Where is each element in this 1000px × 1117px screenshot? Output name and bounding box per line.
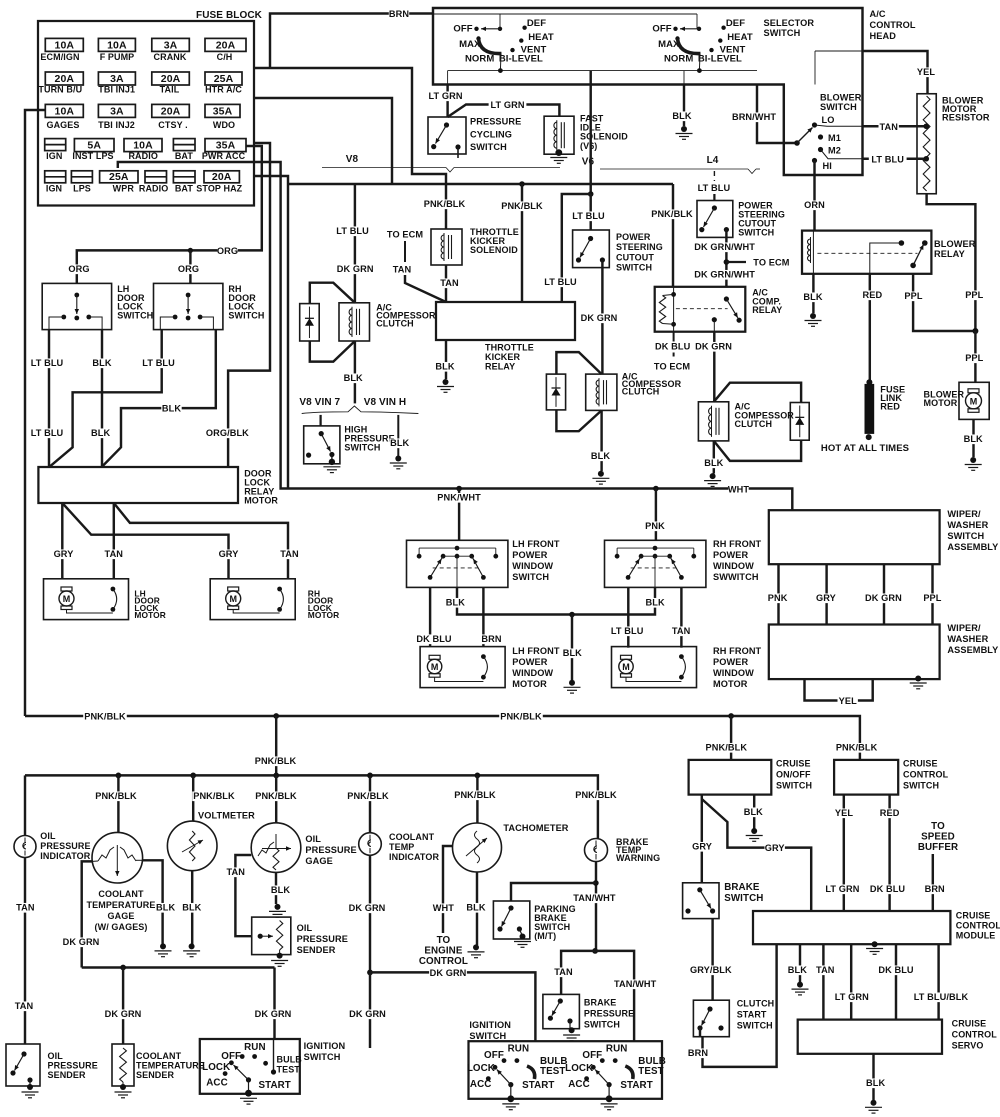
svg-text:CONTROL: CONTROL	[870, 20, 916, 30]
node tachometer feed	[475, 773, 481, 779]
svg-text:3A: 3A	[164, 39, 178, 51]
svg-text:BLK: BLK	[156, 903, 175, 913]
wire DK GRN to coolant sender 2	[369, 972, 371, 1048]
svg-text:CONTROL: CONTROL	[419, 956, 468, 967]
svg-text:ON/OFF: ON/OFF	[776, 770, 811, 780]
svg-text:LT BLU: LT BLU	[544, 277, 577, 287]
svg-text:IGNITION: IGNITION	[304, 1041, 346, 1051]
wire PNK/BLK left trunk from GAGES fuse down to lower trunk	[25, 110, 45, 716]
LH front power window motor	[420, 647, 505, 688]
wire GRY/BLK from brake switch	[711, 919, 713, 1001]
svg-text:GRY: GRY	[816, 593, 836, 603]
wire TAN to RH door lock motor	[114, 503, 288, 579]
fuse spacer BAT row5	[173, 171, 195, 183]
svg-text:BLK: BLK	[866, 1078, 885, 1088]
wire PNK to RH window switch	[655, 489, 657, 541]
svg-text:LT GRN: LT GRN	[490, 100, 524, 110]
throttle kicker solenoid box	[431, 229, 462, 265]
LH door lock motor	[44, 579, 129, 620]
svg-text:PPL: PPL	[965, 290, 983, 300]
svg-text:TO ECM: TO ECM	[654, 362, 690, 372]
fuse spacer LPS row5	[71, 171, 92, 183]
wire STOP HAZ feed / A/C section border	[254, 176, 288, 489]
wire BLK from coolant gage	[142, 860, 162, 944]
node DK GRN to coolant sender	[120, 965, 126, 971]
svg-text:LOCK: LOCK	[467, 1063, 495, 1074]
svg-text:DEF: DEF	[527, 18, 546, 29]
svg-text:LO: LO	[822, 115, 835, 125]
wire PPL from blower relay contact	[913, 274, 975, 331]
wire BLK from clutch V8	[354, 341, 356, 403]
tachometer circle	[453, 823, 502, 872]
svg-text:35A: 35A	[213, 105, 233, 117]
svg-text:WDO: WDO	[213, 120, 235, 130]
svg-text:RADIO: RADIO	[128, 151, 158, 161]
svg-text:PPL: PPL	[904, 291, 922, 301]
svg-text:TAN: TAN	[554, 967, 573, 977]
svg-text:PNK/BLK: PNK/BLK	[255, 791, 297, 801]
svg-text:SWITCH: SWITCH	[776, 781, 812, 791]
fuse CRANK 3A	[152, 38, 190, 51]
svg-text:BLK: BLK	[435, 362, 454, 372]
fuse STOP HAZ 20A	[204, 171, 239, 183]
oil pressure gage circle	[251, 823, 301, 873]
svg-text:M1: M1	[828, 133, 841, 143]
wire LT BLU branch to throttle kicker relay	[562, 194, 591, 302]
svg-text:POWER: POWER	[616, 232, 651, 242]
blower switch common node	[794, 140, 800, 146]
svg-text:BRN: BRN	[389, 9, 409, 19]
svg-text:LOCK: LOCK	[202, 1062, 230, 1073]
svg-text:BLK: BLK	[162, 404, 181, 414]
svg-text:OIL: OIL	[305, 834, 321, 844]
svg-text:M: M	[431, 662, 439, 672]
label LT GRN	[427, 91, 465, 101]
diode L4	[790, 403, 809, 441]
wire PNK/BLK to cruise on/off switch	[730, 716, 732, 760]
fuse INST LPS 5A	[74, 139, 114, 152]
RH front power window switch	[605, 540, 706, 587]
wire PNK wiper	[777, 564, 779, 624]
L4 dashed stub	[713, 171, 715, 181]
svg-text:CLUTCH: CLUTCH	[737, 999, 775, 1009]
brake switch contacts	[697, 887, 702, 892]
wire YEL/LT GRN from cruise control switch	[843, 795, 845, 911]
svg-text:VENT: VENT	[521, 45, 547, 56]
wire YEL link under wiper assembly	[805, 679, 873, 700]
svg-text:GAGE: GAGE	[305, 856, 332, 866]
blower motor box	[959, 382, 989, 419]
wire DK GRN from PS cutout switch to A/C clutch V6	[601, 260, 603, 374]
wire DK GRN wiper	[883, 564, 885, 624]
svg-text:RADIO: RADIO	[139, 184, 169, 194]
wire WDO 35A feed joining PNK/BLK trunk	[254, 98, 392, 184]
svg-text:START: START	[620, 1080, 652, 1091]
svg-text:SENDER: SENDER	[136, 1070, 175, 1080]
wire GRY from cruise on/off to brake switch	[701, 795, 703, 883]
power steering cutout switch box L4	[697, 201, 733, 238]
svg-text:SENDER: SENDER	[297, 945, 336, 955]
svg-text:PNK/BLK: PNK/BLK	[95, 791, 137, 801]
node coolant gauge feed	[116, 773, 122, 779]
svg-text:OIL: OIL	[40, 831, 56, 841]
node fuse link top	[866, 379, 872, 385]
svg-text:STOP HAZ: STOP HAZ	[196, 184, 242, 194]
voltmeter circle	[167, 821, 217, 871]
svg-text:BUFFER: BUFFER	[918, 842, 958, 853]
wire LT BLU to RH window motor	[627, 587, 629, 647]
svg-text:VENT: VENT	[720, 45, 746, 56]
svg-text:LT BLU/BLK: LT BLU/BLK	[914, 992, 969, 1002]
wire TAN from LO to blower motor resistor	[815, 125, 863, 126]
LH door lock switch	[42, 283, 111, 329]
svg-text:DEF: DEF	[726, 18, 745, 29]
svg-text:WINDOW: WINDOW	[512, 668, 553, 678]
high pressure switch box	[304, 426, 340, 464]
oil pressure sender switch box	[6, 1044, 40, 1086]
A/C comp relay dashed link	[676, 308, 728, 310]
svg-text:BRN: BRN	[925, 884, 945, 894]
svg-text:PNK/BLK: PNK/BLK	[706, 743, 748, 753]
svg-text:DK GRN: DK GRN	[337, 264, 374, 274]
ground blower relay	[810, 313, 816, 319]
label LT GRN 2	[489, 100, 527, 110]
wire TAN cruise module to servo	[822, 944, 824, 1019]
svg-text:GRY/BLK: GRY/BLK	[690, 965, 732, 975]
tachometer internals	[475, 831, 480, 863]
label ORG/BLK	[206, 428, 250, 438]
svg-text:PRESSURE: PRESSURE	[470, 117, 521, 127]
fuse C/H 20A	[205, 38, 246, 51]
A/C comp relay coil	[673, 287, 675, 332]
svg-text:BLK: BLK	[672, 111, 691, 121]
svg-text:GAGE: GAGE	[108, 911, 135, 921]
svg-text:NORM: NORM	[465, 54, 494, 65]
svg-text:TEST: TEST	[277, 1065, 301, 1075]
blower motor resistor box	[917, 94, 936, 194]
wire PNK/BLK gauge trunk	[25, 775, 598, 838]
svg-text:MOTOR: MOTOR	[244, 496, 278, 506]
cruise control servo box	[798, 1020, 942, 1054]
svg-text:RED: RED	[863, 290, 883, 300]
wire BLK from throttle kicker relay	[445, 340, 447, 379]
svg-text:25A: 25A	[214, 73, 234, 85]
node TAN junction	[592, 948, 598, 954]
svg-text:PNK/BLK: PNK/BLK	[347, 791, 389, 801]
svg-text:BLK: BLK	[91, 428, 110, 438]
node TO ECM branch	[724, 259, 730, 265]
svg-text:SWITCH: SWITCH	[512, 572, 549, 582]
svg-text:GRY: GRY	[765, 843, 785, 853]
svg-text:BLK: BLK	[344, 373, 363, 383]
wire clutch V6 to diode top	[556, 352, 601, 374]
svg-text:CYCLING: CYCLING	[470, 129, 512, 139]
node PPL junction	[972, 328, 978, 334]
wire RED/DK BLU from cruise control switch	[888, 795, 890, 911]
svg-text:V6: V6	[582, 157, 595, 168]
svg-text:ORG: ORG	[217, 246, 238, 256]
svg-text:CONTROL: CONTROL	[952, 1030, 998, 1040]
svg-text:PNK/BLK: PNK/BLK	[500, 712, 542, 722]
svg-text:DK GRN: DK GRN	[349, 1009, 386, 1019]
svg-text:WARNING: WARNING	[616, 853, 660, 863]
wire TAN to brake pressure switch	[561, 951, 595, 995]
pressure cycling switch box	[428, 117, 466, 154]
node BLK junction	[569, 612, 575, 618]
svg-text:(W/ GAGES): (W/ GAGES)	[95, 922, 148, 932]
wire BLK from RH window switch	[572, 587, 655, 614]
wire LT GRN from selector to pressure cycling switch	[446, 85, 448, 118]
svg-text:PNK: PNK	[768, 593, 788, 603]
wire BRN to LH window motor	[482, 587, 484, 646]
node WHT to LH window switch	[456, 486, 462, 492]
wire ORG/BLK from fuse block to door lock relay	[228, 143, 270, 467]
svg-text:OFF: OFF	[582, 1050, 602, 1061]
brake switch box	[683, 883, 719, 919]
svg-text:PRESSURE: PRESSURE	[40, 841, 90, 851]
svg-text:TAN: TAN	[15, 1001, 34, 1011]
svg-text:CRUISE: CRUISE	[956, 911, 991, 921]
wire TAN to ECM	[404, 241, 406, 262]
fuse link RED	[865, 384, 875, 434]
svg-text:SWITCH: SWITCH	[738, 228, 774, 238]
svg-text:BRN: BRN	[688, 1048, 708, 1058]
svg-text:LT BLU: LT BLU	[698, 183, 731, 193]
fuse TURN B/U 20A	[45, 72, 83, 85]
fuse WPR 25A	[100, 171, 138, 183]
svg-text:STEERING: STEERING	[616, 242, 663, 252]
high pressure switch contacts	[319, 431, 324, 436]
svg-text:HEAT: HEAT	[727, 32, 753, 43]
svg-text:M: M	[63, 594, 71, 604]
svg-text:POWER: POWER	[713, 657, 748, 667]
blower motor symbol	[968, 389, 979, 393]
oil pressure indicator bulb	[14, 836, 36, 858]
wire ORG from PWR ACC fuse to door lock switches	[77, 146, 262, 283]
svg-text:3A: 3A	[110, 73, 124, 85]
inner thin rails of control head	[433, 13, 697, 15]
ground coolant temperature sender	[120, 1084, 126, 1090]
svg-text:ECM/IGN: ECM/IGN	[40, 52, 79, 62]
wiper/washer assembly box	[769, 625, 940, 680]
svg-text:BLK: BLK	[271, 885, 290, 895]
svg-text:ENGINE: ENGINE	[424, 946, 463, 957]
svg-text:BRN/WHT: BRN/WHT	[732, 112, 776, 122]
contact M2	[818, 147, 823, 152]
wire PPL from resistor bottom	[927, 194, 976, 331]
svg-text:LOCK: LOCK	[565, 1063, 593, 1074]
svg-text:BLK: BLK	[563, 648, 582, 658]
power steering cutout switch box V6	[573, 230, 610, 268]
wire LT BLU / DK GRN feed to A/C clutch V8	[354, 184, 356, 303]
wire LT BLU from M2 to blower motor resistor	[821, 150, 863, 159]
svg-text:F PUMP: F PUMP	[100, 52, 135, 62]
svg-text:CUTOUT: CUTOUT	[616, 252, 654, 262]
svg-text:PNK/BLK: PNK/BLK	[836, 743, 878, 753]
node resistor TAN tap	[923, 123, 929, 129]
svg-text:TACHOMETER: TACHOMETER	[503, 823, 568, 833]
ground coolant gage	[160, 943, 166, 949]
svg-text:RELAY: RELAY	[752, 305, 782, 315]
svg-text:25A: 25A	[109, 171, 129, 183]
svg-text:BLK: BLK	[704, 458, 723, 468]
svg-text:TO ECM: TO ECM	[753, 258, 789, 268]
svg-text:LT BLU: LT BLU	[31, 358, 64, 368]
coolant temperature gage circle	[92, 832, 143, 883]
svg-text:TURN B/U: TURN B/U	[38, 85, 82, 95]
svg-text:TO ECM: TO ECM	[387, 230, 423, 240]
svg-text:PRESSURE: PRESSURE	[297, 934, 348, 944]
svg-text:10A: 10A	[107, 39, 127, 51]
svg-text:RUN: RUN	[244, 1042, 266, 1053]
wire to parking brake switch	[511, 883, 596, 901]
fuse WDO 35A	[205, 104, 240, 117]
svg-text:GRY: GRY	[219, 549, 239, 559]
svg-text:L4: L4	[707, 155, 719, 166]
svg-text:PNK/BLK: PNK/BLK	[454, 790, 496, 800]
wire BRN from speed buffer	[932, 854, 934, 911]
label YEL	[916, 67, 936, 77]
svg-text:YEL: YEL	[835, 808, 853, 818]
svg-text:RUN: RUN	[606, 1044, 628, 1055]
svg-text:10A: 10A	[133, 140, 153, 152]
svg-text:WINDOW: WINDOW	[512, 561, 553, 571]
svg-text:MOTOR: MOTOR	[713, 679, 748, 689]
svg-text:TEMPERATURE: TEMPERATURE	[136, 1061, 205, 1071]
svg-text:CONTROL: CONTROL	[956, 921, 1000, 931]
wire LT GRN cruise module to servo	[850, 944, 852, 1019]
svg-text:TAN: TAN	[16, 903, 35, 913]
svg-text:CLUTCH: CLUTCH	[376, 319, 414, 329]
A/C compressor clutch V8 box	[339, 303, 370, 341]
wire DK GRN inside ignition switch 1	[273, 1039, 275, 1071]
svg-text:LT GRN: LT GRN	[825, 884, 859, 894]
throttle kicker relay box	[436, 302, 575, 340]
svg-text:RED: RED	[880, 808, 900, 818]
node trunk1 to gauges	[273, 713, 279, 719]
svg-text:10A: 10A	[55, 39, 75, 51]
pressure cycling switch lower pin	[457, 147, 459, 158]
wire PNK/BLK page trunk	[25, 716, 860, 760]
label ORN	[804, 200, 824, 210]
label TO ECM left	[386, 230, 424, 240]
wire BLK from blower relay coil	[812, 274, 814, 313]
A/C compressor clutch V6 box	[586, 374, 617, 410]
svg-text:TO: TO	[931, 821, 945, 832]
ground high pressure switch	[329, 459, 335, 465]
cruise on/off switch box	[689, 760, 772, 795]
node fuse link bottom	[866, 434, 872, 440]
svg-text:PPL: PPL	[923, 593, 941, 603]
ground blower motor	[970, 457, 976, 463]
svg-text:TAIL: TAIL	[160, 85, 180, 95]
wire TAN to RH window motor	[680, 587, 682, 647]
svg-text:COOLANT: COOLANT	[136, 1051, 182, 1061]
svg-text:TEMPERATURE: TEMPERATURE	[87, 900, 156, 910]
label WHT	[728, 485, 748, 495]
svg-text:SWITCH: SWITCH	[584, 1020, 620, 1030]
svg-text:SWITCH: SWITCH	[469, 1031, 506, 1041]
oil pressure sender internals	[258, 934, 263, 939]
svg-text:CLUTCH: CLUTCH	[622, 387, 660, 397]
fast idle solenoid box	[544, 116, 574, 154]
svg-text:PRESSURE: PRESSURE	[305, 845, 356, 855]
wire HTR A/C 25A feed to throttle kicker solenoid	[254, 68, 446, 229]
wire DK GRN to ignition switch 1	[273, 968, 275, 1040]
svg-text:GRY: GRY	[692, 842, 712, 852]
LH front power window switch	[407, 540, 508, 587]
ground throttle kicker relay	[443, 379, 449, 385]
svg-text:OFF: OFF	[221, 1051, 241, 1062]
svg-text:SWITCH: SWITCH	[820, 102, 857, 112]
contact HI	[812, 158, 817, 163]
ground parking brake switch	[520, 934, 526, 940]
pressure cycling switch contacts	[444, 122, 449, 127]
wire DK GRN/WHT from PS switch L4	[725, 230, 727, 287]
wire GRY branch to cruise module	[702, 799, 811, 911]
svg-text:BLK: BLK	[390, 438, 409, 448]
svg-text:(V6): (V6)	[580, 141, 597, 151]
svg-text:BLK: BLK	[446, 598, 465, 608]
fuse TBI INJ1 3A	[98, 72, 135, 85]
svg-text:TO: TO	[437, 935, 451, 946]
svg-text:IGN: IGN	[46, 184, 62, 194]
wire PNK/BLK to tachometer	[476, 775, 478, 823]
svg-text:BLOWER: BLOWER	[934, 239, 976, 249]
node trunk1 to cruise on/off	[728, 713, 734, 719]
wire RED from blower relay to fuse link	[869, 274, 871, 383]
ground clutch L4	[710, 473, 716, 479]
blower relay fixed contact	[870, 243, 902, 274]
wire DK BLU cruise module to servo	[895, 944, 897, 1019]
ground oil gage	[275, 904, 281, 910]
svg-text:A/C: A/C	[870, 9, 886, 19]
svg-text:SWITCH: SWITCH	[903, 781, 939, 791]
svg-text:BLK: BLK	[646, 598, 665, 608]
svg-text:WASHER: WASHER	[947, 520, 988, 530]
svg-text:ORG: ORG	[178, 264, 199, 274]
wire PNK/BLK to A/C comp relay coil	[672, 184, 674, 287]
svg-text:HEAT: HEAT	[528, 32, 554, 43]
svg-text:BRAKE: BRAKE	[584, 998, 617, 1008]
svg-text:WASHER: WASHER	[947, 634, 988, 644]
wire BLK from RH switch to relay	[102, 330, 216, 467]
wire PNK/BLK to oil pressure gage	[275, 775, 277, 822]
svg-text:SWITCH: SWITCH	[304, 1052, 341, 1062]
svg-text:LT BLU: LT BLU	[31, 428, 64, 438]
wire TAN/WHT to ignition switch 2	[595, 951, 634, 1041]
svg-text:SELECTOR: SELECTOR	[764, 18, 815, 28]
svg-text:C/H: C/H	[217, 52, 233, 62]
A/C comp relay box	[655, 287, 746, 332]
wire DK GRN trunk from coolant gage	[82, 966, 275, 968]
svg-text:TAN: TAN	[105, 549, 124, 559]
wire PNK/BLK to coolant gauge	[117, 775, 119, 832]
A/C comp relay armature	[724, 296, 729, 301]
svg-text:PWR ACC: PWR ACC	[202, 151, 246, 161]
svg-text:SWITCH: SWITCH	[344, 443, 380, 453]
svg-text:INDICATOR: INDICATOR	[40, 851, 90, 861]
svg-text:SOLENOID: SOLENOID	[470, 245, 518, 255]
label DK GRN/WHT 2	[694, 270, 755, 280]
wire BLK from clutch V6	[600, 410, 602, 471]
coolant temperature sender element	[120, 1048, 127, 1082]
svg-text:IGN: IGN	[46, 151, 62, 161]
wire LT BLU into PS cutout switch L4	[713, 194, 715, 201]
wire LT GRN jumper to fast idle solenoid	[448, 105, 560, 118]
wire PPL to blower motor	[974, 331, 976, 382]
svg-text:BLK: BLK	[788, 965, 807, 975]
